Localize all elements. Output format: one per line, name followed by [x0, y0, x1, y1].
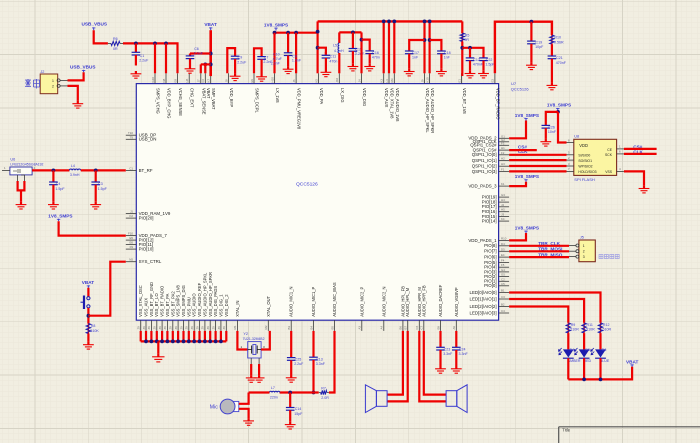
svg-text:USB_VBUS: USB_VBUS: [70, 65, 96, 70]
wire: [624, 171, 644, 185]
svg-text:G5: G5: [501, 273, 505, 277]
inductor L7: [269, 386, 279, 399]
svg-text:J3: J3: [501, 212, 504, 216]
svg-text:J9: J9: [420, 79, 424, 82]
resistor R6: [108, 37, 123, 51]
junction: [87, 314, 91, 318]
svg-text:AUDIO_MIC_BIAS: AUDIO_MIC_BIAS: [332, 282, 337, 317]
svg-text:F9: F9: [130, 245, 134, 249]
junction: [164, 42, 168, 46]
wire: [360, 32, 362, 73]
net label 1V8_SMPS: [515, 174, 539, 182]
net label 1V8_SMPS: [48, 214, 72, 222]
svg-text:R9: R9: [571, 323, 576, 327]
svg-text:VSS_AUDIO_REF: VSS_AUDIO_REF: [197, 282, 202, 316]
svg-text:C7: C7: [264, 56, 269, 60]
junction: [392, 20, 396, 24]
svg-text:Z9: Z9: [195, 326, 199, 330]
IC U7 top pin stubs, numbers and names: [151, 73, 501, 133]
ground: [285, 422, 296, 429]
svg-text:C11: C11: [330, 55, 336, 59]
wire: [509, 256, 569, 258]
wire: [290, 331, 292, 358]
svg-text:LFB212G45SG8A192: LFB212G45SG8A192: [10, 163, 43, 167]
svg-text:J6: J6: [292, 79, 296, 82]
svg-text:1.5pF: 1.5pF: [98, 187, 108, 191]
net label TBR_MISO: [538, 252, 563, 257]
svg-text:L3: L3: [385, 79, 389, 83]
wire: [583, 333, 585, 349]
ground: [152, 354, 164, 362]
svg-text:470n: 470n: [329, 59, 337, 63]
svg-text:2.2uF: 2.2uF: [237, 60, 247, 64]
wire: [509, 250, 569, 252]
junction: [316, 30, 320, 34]
svg-text:SPI FLASH: SPI FLASH: [574, 177, 595, 182]
wire: [338, 32, 340, 43]
svg-text:VSS_AUDIO_HP_SPKL: VSS_AUDIO_HP_SPKL: [202, 272, 207, 317]
svg-text:U6: U6: [10, 158, 15, 162]
wire: [509, 170, 566, 172]
svg-text:R8: R8: [91, 324, 96, 328]
svg-text:XTAL_OUT: XTAL_OUT: [266, 295, 271, 316]
wire: [157, 341, 159, 353]
svg-text:USB_DN: USB_DN: [139, 137, 157, 142]
svg-text:3.3nF: 3.3nF: [459, 352, 469, 356]
resistor R11: [582, 323, 595, 333]
svg-text:VDD_PMU_VREG1V8: VDD_PMU_VREG1V8: [297, 88, 302, 130]
svg-text:Z9: Z9: [179, 326, 183, 330]
svg-text:7U21-32M4B2: 7U21-32M4B2: [243, 337, 265, 341]
svg-text:F10: F10: [128, 232, 133, 236]
svg-text:PIO[6]: PIO[6]: [484, 255, 496, 260]
svg-text:C1: C1: [129, 166, 133, 170]
capacitor C22: [479, 58, 495, 71]
wire: [388, 21, 390, 73]
wire: [461, 21, 463, 33]
svg-text:VSS_BT_LO: VSS_BT_LO: [154, 293, 159, 316]
capacitor C11: [322, 52, 338, 70]
svg-text:D5: D5: [501, 247, 505, 251]
junction: [387, 20, 391, 24]
filter U6 BT RF: [2, 158, 44, 181]
junction: [52, 169, 56, 173]
svg-text:LED[3]/AIO[3]: LED[3]/AIO[3]: [470, 310, 497, 315]
ground: [243, 418, 254, 425]
svg-text:C21: C21: [556, 56, 563, 60]
svg-text:VSS_BT_RF_GND: VSS_BT_RF_GND: [149, 282, 154, 317]
svg-text:1V8_SMPS: 1V8_SMPS: [48, 214, 72, 219]
svg-text:H4: H4: [501, 198, 505, 202]
wire: [312, 331, 314, 357]
svg-text:F4: F4: [501, 259, 505, 263]
LED D6 BLUE: [591, 348, 610, 363]
junction: [316, 46, 320, 50]
wire: [275, 32, 318, 34]
svg-text:B1: B1: [501, 289, 505, 293]
svg-text:G10: G10: [151, 77, 155, 83]
svg-text:SI/SIO0: SI/SIO0: [578, 154, 590, 158]
svg-text:3.3nF: 3.3nF: [443, 352, 453, 356]
svg-text:E8: E8: [173, 79, 177, 83]
svg-text:Z9: Z9: [190, 326, 194, 330]
IC U7 QCC5126: [136, 81, 529, 320]
wire: [87, 288, 89, 297]
svg-text:J10: J10: [335, 77, 339, 82]
svg-text:A9: A9: [452, 326, 456, 330]
svg-text:QSPI1_IO[0]: QSPI1_IO[0]: [472, 152, 497, 157]
svg-text:F5: F5: [501, 263, 505, 267]
svg-text:SMP_VBAT: SMP_VBAT: [211, 88, 216, 110]
ground: [436, 69, 447, 76]
junction: [153, 42, 157, 46]
wire: [509, 149, 537, 151]
wire: [583, 358, 585, 379]
svg-text:R7: R7: [321, 386, 326, 390]
wire: [509, 165, 566, 167]
capacitor C4: [49, 170, 65, 201]
svg-text:E9: E9: [250, 79, 254, 83]
wire SYS_CTRL: [88, 262, 125, 316]
svg-text:2.2uF: 2.2uF: [294, 362, 304, 366]
svg-text:E1: E1: [457, 79, 461, 83]
svg-text:VSS_SMPS_DIG: VSS_SMPS_DIG: [181, 285, 186, 317]
svg-text:LED[2]/AIO[2]: LED[2]/AIO[2]: [470, 304, 497, 309]
svg-text:VSS_BT_RADIO: VSS_BT_RADIO: [160, 286, 165, 317]
net label CS#: [633, 144, 643, 149]
wire: [68, 72, 84, 80]
wire: [509, 293, 600, 323]
wire: [20, 190, 22, 201]
wire: [273, 33, 275, 74]
wire: [190, 52, 211, 54]
inductor L5: [333, 43, 344, 53]
svg-text:R5: R5: [465, 33, 470, 37]
svg-text:Z9: Z9: [185, 326, 189, 330]
net label CLK: [633, 149, 643, 154]
text charging (CJK): [25, 79, 40, 89]
svg-text:510R: 510R: [603, 328, 612, 332]
svg-text:VSS_DIG_1: VSS_DIG_1: [218, 294, 223, 317]
svg-text:M1: M1: [233, 325, 237, 329]
wire: [624, 153, 657, 155]
wire: [423, 21, 425, 73]
svg-text:F1: F1: [501, 168, 505, 172]
svg-text:10nF: 10nF: [548, 130, 557, 134]
svg-text:B4: B4: [309, 326, 313, 330]
svg-text:B9: B9: [436, 326, 440, 330]
resistor R7: [319, 386, 330, 400]
wire: [154, 43, 156, 73]
resistor R10: [550, 35, 564, 44]
svg-text:U8: U8: [574, 135, 579, 139]
svg-text:2.2uF: 2.2uF: [355, 52, 365, 56]
svg-text:C23: C23: [444, 347, 451, 351]
wire: [239, 409, 249, 418]
svg-text:470n: 470n: [372, 56, 380, 60]
capacitor C10: [273, 33, 293, 67]
wire: [204, 64, 206, 73]
IC U7 right pin stubs, numbers and names: [468, 134, 509, 315]
wire: [462, 48, 483, 58]
wire: [469, 48, 471, 58]
svg-text:H6: H6: [185, 78, 189, 82]
svg-text:Z9: Z9: [158, 326, 162, 330]
wire LED common to VBAT: [568, 367, 632, 380]
capacitor C24: [452, 347, 468, 366]
svg-text:1V8_SMPS: 1V8_SMPS: [515, 113, 539, 118]
wire: [430, 40, 442, 51]
svg-text:1: 1: [583, 244, 585, 248]
ground: [16, 202, 27, 209]
wire: [59, 221, 126, 235]
svg-text:M2: M2: [264, 325, 268, 329]
net label 1V8_SMPS: [515, 225, 539, 233]
svg-text:CE: CE: [607, 148, 612, 152]
svg-text:USB_VBUS: USB_VBUS: [82, 22, 108, 27]
svg-text:K3: K3: [380, 79, 384, 83]
svg-text:BT_RF: BT_RF: [139, 168, 153, 173]
wire: [599, 333, 601, 349]
svg-text:L5: L5: [333, 43, 337, 47]
wire: [509, 182, 526, 186]
svg-text:D8: D8: [162, 78, 166, 82]
junction: [599, 378, 603, 382]
ground: [465, 71, 476, 78]
svg-text:QCC5126: QCC5126: [296, 182, 318, 188]
svg-text:PIO[10]: PIO[10]: [139, 247, 154, 252]
junction: [134, 42, 138, 46]
svg-text:3.9nH: 3.9nH: [70, 173, 80, 177]
junction: [468, 46, 472, 50]
svg-text:VCHG_SENSE: VCHG_SENSE: [178, 88, 183, 116]
svg-text:K6: K6: [201, 79, 205, 83]
IC U7 bottom pin stubs, numbers and names: [137, 272, 459, 331]
svg-text:R12: R12: [603, 323, 610, 327]
svg-text:Z9: Z9: [206, 326, 210, 330]
svg-text:WP/SIO2: WP/SIO2: [578, 164, 592, 168]
svg-text:VSS_AUDIO: VSS_AUDIO: [192, 293, 197, 316]
title block: [559, 427, 700, 443]
svg-text:AUDIO_MIC2_N: AUDIO_MIC2_N: [381, 287, 386, 317]
wire: [419, 331, 446, 402]
svg-text:D4: D4: [501, 242, 505, 246]
svg-text:E5: E5: [129, 236, 133, 240]
svg-text:QSPI1_IO[1]: QSPI1_IO[1]: [472, 158, 497, 163]
svg-text:1V8_SMPS: 1V8_SMPS: [515, 174, 539, 179]
svg-text:AUDIO_HPL_M: AUDIO_HPL_M: [405, 287, 410, 316]
svg-text:QSPI1_IO[2]: QSPI1_IO[2]: [472, 164, 497, 169]
net label 1V8_SMPS: [264, 22, 288, 30]
svg-text:VSS_SMPS_1V8: VSS_SMPS_1V8: [176, 284, 181, 316]
svg-text:VDD_BT_RADIO: VDD_BT_RADIO: [495, 88, 500, 119]
svg-text:C1: C1: [140, 54, 145, 58]
svg-text:C3: C3: [501, 295, 505, 299]
ground: [256, 74, 267, 81]
capacitor C6: [186, 47, 204, 66]
svg-text:1: 1: [52, 79, 54, 83]
svg-text:510R: 510R: [570, 328, 579, 332]
svg-text:C6: C6: [194, 47, 199, 51]
svg-text:D4: D4: [570, 348, 575, 352]
junction: [209, 52, 213, 56]
wire: [261, 331, 270, 350]
junction: [286, 31, 290, 35]
junction: [360, 38, 364, 42]
net label USB_VBUS: [70, 65, 96, 73]
junction: [530, 20, 534, 24]
svg-text:AUDIO_VGBVP: AUDIO_VGBVP: [454, 287, 459, 317]
junction: [382, 20, 386, 24]
svg-text:VSS_AUX: VSS_AUX: [144, 298, 149, 317]
wire: [551, 44, 553, 56]
ground: [72, 101, 83, 108]
svg-text:E4: E4: [501, 253, 505, 257]
svg-text:U7: U7: [511, 81, 517, 86]
svg-text:J2: J2: [40, 70, 44, 74]
svg-text:K1: K1: [501, 182, 505, 186]
svg-text:H2: H2: [501, 156, 505, 160]
svg-text:4.7uF: 4.7uF: [273, 57, 283, 61]
wire: [87, 334, 89, 342]
capacitor C15: [349, 32, 365, 63]
junction: [203, 63, 207, 67]
svg-text:Z9: Z9: [211, 326, 215, 330]
wire: [201, 63, 211, 65]
wire: [200, 64, 202, 73]
svg-text:Z9: Z9: [137, 326, 141, 330]
svg-text:B5: B5: [330, 326, 334, 330]
ground: [286, 375, 297, 382]
wire: [250, 364, 252, 375]
wire: [599, 358, 601, 379]
svg-text:VDD_PADS_1: VDD_PADS_1: [468, 238, 497, 243]
resistor R8: [86, 324, 99, 334]
svg-text:3: 3: [583, 255, 585, 259]
svg-text:C3: C3: [98, 182, 103, 186]
svg-text:H3: H3: [501, 162, 505, 166]
capacitor C9: [231, 53, 247, 73]
svg-text:R6: R6: [113, 37, 118, 41]
wire 1V8 power rail: [318, 20, 463, 22]
svg-text:E2: E2: [491, 79, 495, 83]
svg-text:2: 2: [52, 85, 54, 89]
wire: [387, 331, 408, 402]
svg-text:C24: C24: [459, 347, 466, 351]
capacitor C13: [309, 357, 326, 392]
net label CLK: [518, 149, 528, 154]
svg-text:G3: G3: [501, 193, 505, 197]
svg-text:PIO[14]: PIO[14]: [482, 219, 497, 224]
svg-text:L4: L4: [71, 164, 75, 168]
flash memory U8: [567, 135, 624, 183]
ground: [540, 139, 551, 146]
svg-text:H1: H1: [501, 146, 505, 150]
wire: [295, 33, 297, 74]
ground: [83, 342, 94, 349]
wire: [338, 53, 340, 73]
svg-text:VDD_AUDIO_HP_SPKR: VDD_AUDIO_HP_SPKR: [430, 88, 435, 133]
svg-text:E6: E6: [129, 241, 133, 245]
svg-text:A4: A4: [380, 326, 384, 330]
capacitor C21: [548, 56, 567, 83]
inductor L4: [69, 164, 80, 177]
wire: [509, 159, 566, 161]
microphone MIC: [210, 399, 239, 414]
svg-text:1V8_SMPS: 1V8_SMPS: [515, 225, 539, 230]
svg-text:VDD_XTAL_1V8: VDD_XTAL_1V8: [390, 88, 395, 119]
svg-text:J4: J4: [357, 79, 361, 82]
svg-text:C26: C26: [548, 126, 555, 130]
ground: [230, 73, 241, 80]
wire: [509, 233, 526, 240]
svg-text:G4: G4: [501, 268, 505, 272]
ground: [131, 71, 142, 78]
svg-text:C2: C2: [501, 277, 505, 281]
capacitor C18: [437, 51, 450, 69]
svg-text:R10: R10: [501, 236, 507, 240]
svg-text:CHG_EXT: CHG_EXT: [190, 88, 195, 108]
svg-text:C25: C25: [295, 358, 302, 362]
svg-text:VBAT: VBAT: [82, 280, 95, 285]
wire: [429, 21, 431, 73]
svg-text:Z9: Z9: [222, 326, 226, 330]
svg-text:K7: K7: [207, 79, 211, 83]
svg-text:VDD_BYP: VDD_BYP: [229, 88, 234, 107]
net label VBAT: [204, 22, 217, 30]
svg-text:LX_DIG: LX_DIG: [340, 88, 345, 103]
svg-text:C19: C19: [536, 41, 543, 45]
wire: [123, 43, 178, 73]
svg-text:VSS: VSS: [605, 170, 613, 174]
wire VSS ground bus: [141, 331, 227, 342]
wire mic bias line: [329, 331, 335, 393]
junction: [312, 391, 316, 395]
svg-text:SYS_CTRL: SYS_CTRL: [139, 259, 162, 264]
net label CS#: [518, 144, 528, 149]
speaker SPK1: [365, 385, 387, 413]
svg-text:B7: B7: [404, 326, 408, 330]
svg-text:K5: K5: [314, 79, 318, 83]
svg-text:J8: J8: [224, 79, 228, 82]
svg-text:N5: N5: [129, 258, 133, 262]
wire: [68, 86, 78, 101]
svg-text:510R: 510R: [586, 328, 595, 332]
svg-text:VSS_XTAL_OSC: VSS_XTAL_OSC: [138, 285, 143, 317]
svg-text:VDD_BYP_CHG: VDD_BYP_CHG: [167, 88, 172, 119]
ground: [478, 71, 489, 78]
IC U7 left pin stubs, numbers and names: [126, 131, 171, 264]
svg-text:VDD_PADS_3: VDD_PADS_3: [468, 184, 497, 189]
junction: [428, 20, 432, 24]
svg-text:Y2: Y2: [243, 332, 248, 336]
connector J5 programming header: [569, 236, 595, 262]
svg-text:LED[1]/AIO[1]: LED[1]/AIO[1]: [470, 296, 497, 301]
svg-text:C13: C13: [316, 357, 323, 361]
wire: [409, 40, 424, 51]
svg-text:LED[0]/AIO[0]: LED[0]/AIO[0]: [470, 290, 497, 295]
svg-text:VSS_DIG_PADS: VSS_DIG_PADS: [213, 286, 218, 317]
capacitor C12: [466, 58, 484, 71]
capacitor C25: [287, 358, 304, 375]
svg-text:SMPS_DCPL: SMPS_DCPL: [255, 88, 260, 114]
ground: [435, 366, 446, 373]
svg-text:HOLD/SIO3: HOLD/SIO3: [578, 170, 596, 174]
junction: [582, 378, 586, 382]
push button S1: [81, 296, 91, 310]
wire: [509, 121, 526, 139]
svg-text:L7: L7: [271, 386, 275, 390]
